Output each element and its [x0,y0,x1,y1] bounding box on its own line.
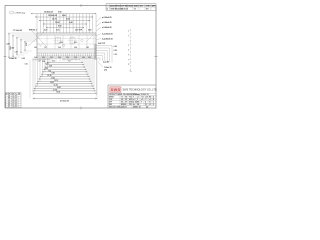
svg-text:1.00±0.10: 1.00±0.10 [9,58,17,60]
svg-text:0.25: 0.25 [25,63,28,65]
svg-text:4.50: 4.50 [7,42,10,45]
svg-text:17.78: 17.78 [53,89,57,91]
svg-text:1.20: 1.20 [114,54,117,56]
svg-text:E1: E1 [9,104,11,106]
svg-text:2.5: 2.5 [12,98,14,100]
svg-text:(2X): (2X) [104,70,107,72]
svg-text:9/5: 9/5 [125,99,127,101]
svg-text:05: 05 [15,100,17,102]
svg-text:⌀ 0.40±0.05: ⌀ 0.40±0.05 [102,26,112,29]
svg-text:9.60: 9.60 [58,25,62,27]
svg-text:0.30: 0.30 [22,58,25,60]
svg-text:PN: PN [9,93,11,95]
svg-text:16.51: 16.51 [57,87,61,89]
svg-text:SHEET 1/1: SHEET 1/1 [133,107,141,109]
svg-text:RE: RE [149,97,151,99]
svg-text:2-⌀0.40: 2-⌀0.40 [103,61,109,64]
svg-text:6.3: 6.3 [12,104,14,106]
svg-text:1.27: 1.27 [15,51,18,53]
svg-text:1: 1 [128,45,129,47]
svg-text:SWS TECHNOLOGY CO.,LTD: SWS TECHNOLOGY CO.,LTD [123,89,157,92]
svg-text:⌀ 0.64±0.05: ⌀ 0.64±0.05 [102,21,112,24]
svg-text:1.27: 1.27 [38,61,41,63]
svg-text:5.0: 5.0 [12,102,14,104]
svg-text:1.60 TYP: 1.60 TYP [75,30,83,32]
svg-text:1.60: 1.60 [56,30,59,32]
svg-text:02: 02 [149,104,151,106]
svg-text:05: 05 [15,98,17,100]
svg-text:0.80: 0.80 [58,11,62,13]
svg-text:6.35: 6.35 [45,68,48,70]
svg-text:0.40: 0.40 [114,45,117,48]
svg-text:7.62: 7.62 [48,70,51,72]
svg-text:2.54: 2.54 [25,43,28,46]
svg-text:05: 05 [15,106,17,108]
svg-text:0.64: 0.64 [62,14,66,17]
svg-text:0.40: 0.40 [69,21,73,24]
svg-text:SWS: SWS [111,88,121,92]
svg-text:21.60±0.30: 21.60±0.30 [60,101,69,103]
svg-text:UNIT mm: UNIT mm [133,94,141,96]
svg-text:05: 05 [15,102,17,104]
svg-text:2-⌀0.80±0.05: 2-⌀0.80±0.05 [102,38,113,41]
svg-text:2.54: 2.54 [11,46,14,49]
svg-text:05: 05 [15,96,17,98]
svg-text:C1: C1 [9,100,11,102]
svg-text:WL: WL [121,102,123,104]
svg-text:1: 1 [128,31,129,33]
svg-text:2-⌀1.00±0.05: 2-⌀1.00±0.05 [102,33,113,36]
svg-text:C:\SWS.dwg: C:\SWS.dwg [15,12,26,14]
svg-text:10.16: 10.16 [47,75,51,77]
svg-text:TL: TL [15,93,17,95]
svg-text:±.2: ±.2 [141,99,143,101]
svg-text:7.6: 7.6 [12,106,14,108]
svg-text:11.40: 11.40 [55,21,59,24]
svg-text:±.05: ±.05 [145,97,148,99]
svg-text:F1: F1 [9,106,11,108]
svg-text:0.64 TYP: 0.64 TYP [98,42,106,45]
svg-text:RE: RE [137,102,139,104]
svg-text:1.27: 1.27 [44,47,47,49]
svg-text:⌀ 0.90±0.05: ⌀ 0.90±0.05 [102,16,112,19]
svg-text:17.10±0.20: 17.10±0.20 [13,30,22,32]
svg-text:05: 05 [15,104,17,106]
svg-text:0: 0 [128,50,129,52]
svg-text:B1: B1 [9,98,11,100]
svg-text:TOL: TOL [129,97,132,99]
svg-text:1.27: 1.27 [68,61,71,63]
svg-text:3.8: 3.8 [12,100,14,102]
svg-text:7: 7 [128,35,129,37]
svg-text:DESCRIPTION OF REVISION: DESCRIPTION OF REVISION [110,5,134,7]
svg-text:16.40±0.30: 16.40±0.30 [44,10,53,13]
svg-text:1.50±0.10: 1.50±0.10 [104,67,112,69]
svg-text:0.40: 0.40 [88,29,91,32]
svg-text:9/5: 9/5 [125,97,127,99]
svg-text:09.05.20: 09.05.20 [122,9,129,11]
svg-text:19.05: 19.05 [56,92,60,94]
svg-text:±1°: ±1° [133,99,136,101]
svg-text:8.89: 8.89 [52,73,55,75]
svg-text:DWG NO: SWS-2009-117: DWG NO: SWS-2009-117 [109,107,127,109]
svg-text:RE: RE [18,93,20,95]
svg-text:3.81: 3.81 [45,63,48,65]
svg-text:12.70: 12.70 [54,80,58,82]
svg-text:±.1: ±.1 [137,97,139,99]
svg-text:13.97: 13.97 [50,82,54,84]
svg-text:5.08: 5.08 [49,66,52,68]
svg-text:PIN NO.1: PIN NO.1 [29,30,37,32]
svg-text:0.80: 0.80 [114,50,117,52]
svg-text:±.3: ±.3 [149,99,151,101]
svg-text:D1: D1 [9,102,11,104]
svg-text:Q1: Q1 [145,104,147,106]
svg-text:15.20±0.20: 15.20±0.20 [48,15,57,17]
svg-text:12.70: 12.70 [52,18,57,20]
svg-text:1.2: 1.2 [12,96,14,98]
svg-text:9/5: 9/5 [125,102,127,104]
svg-text:01: 01 [149,102,151,104]
svg-text:R0.3: R0.3 [74,42,77,44]
